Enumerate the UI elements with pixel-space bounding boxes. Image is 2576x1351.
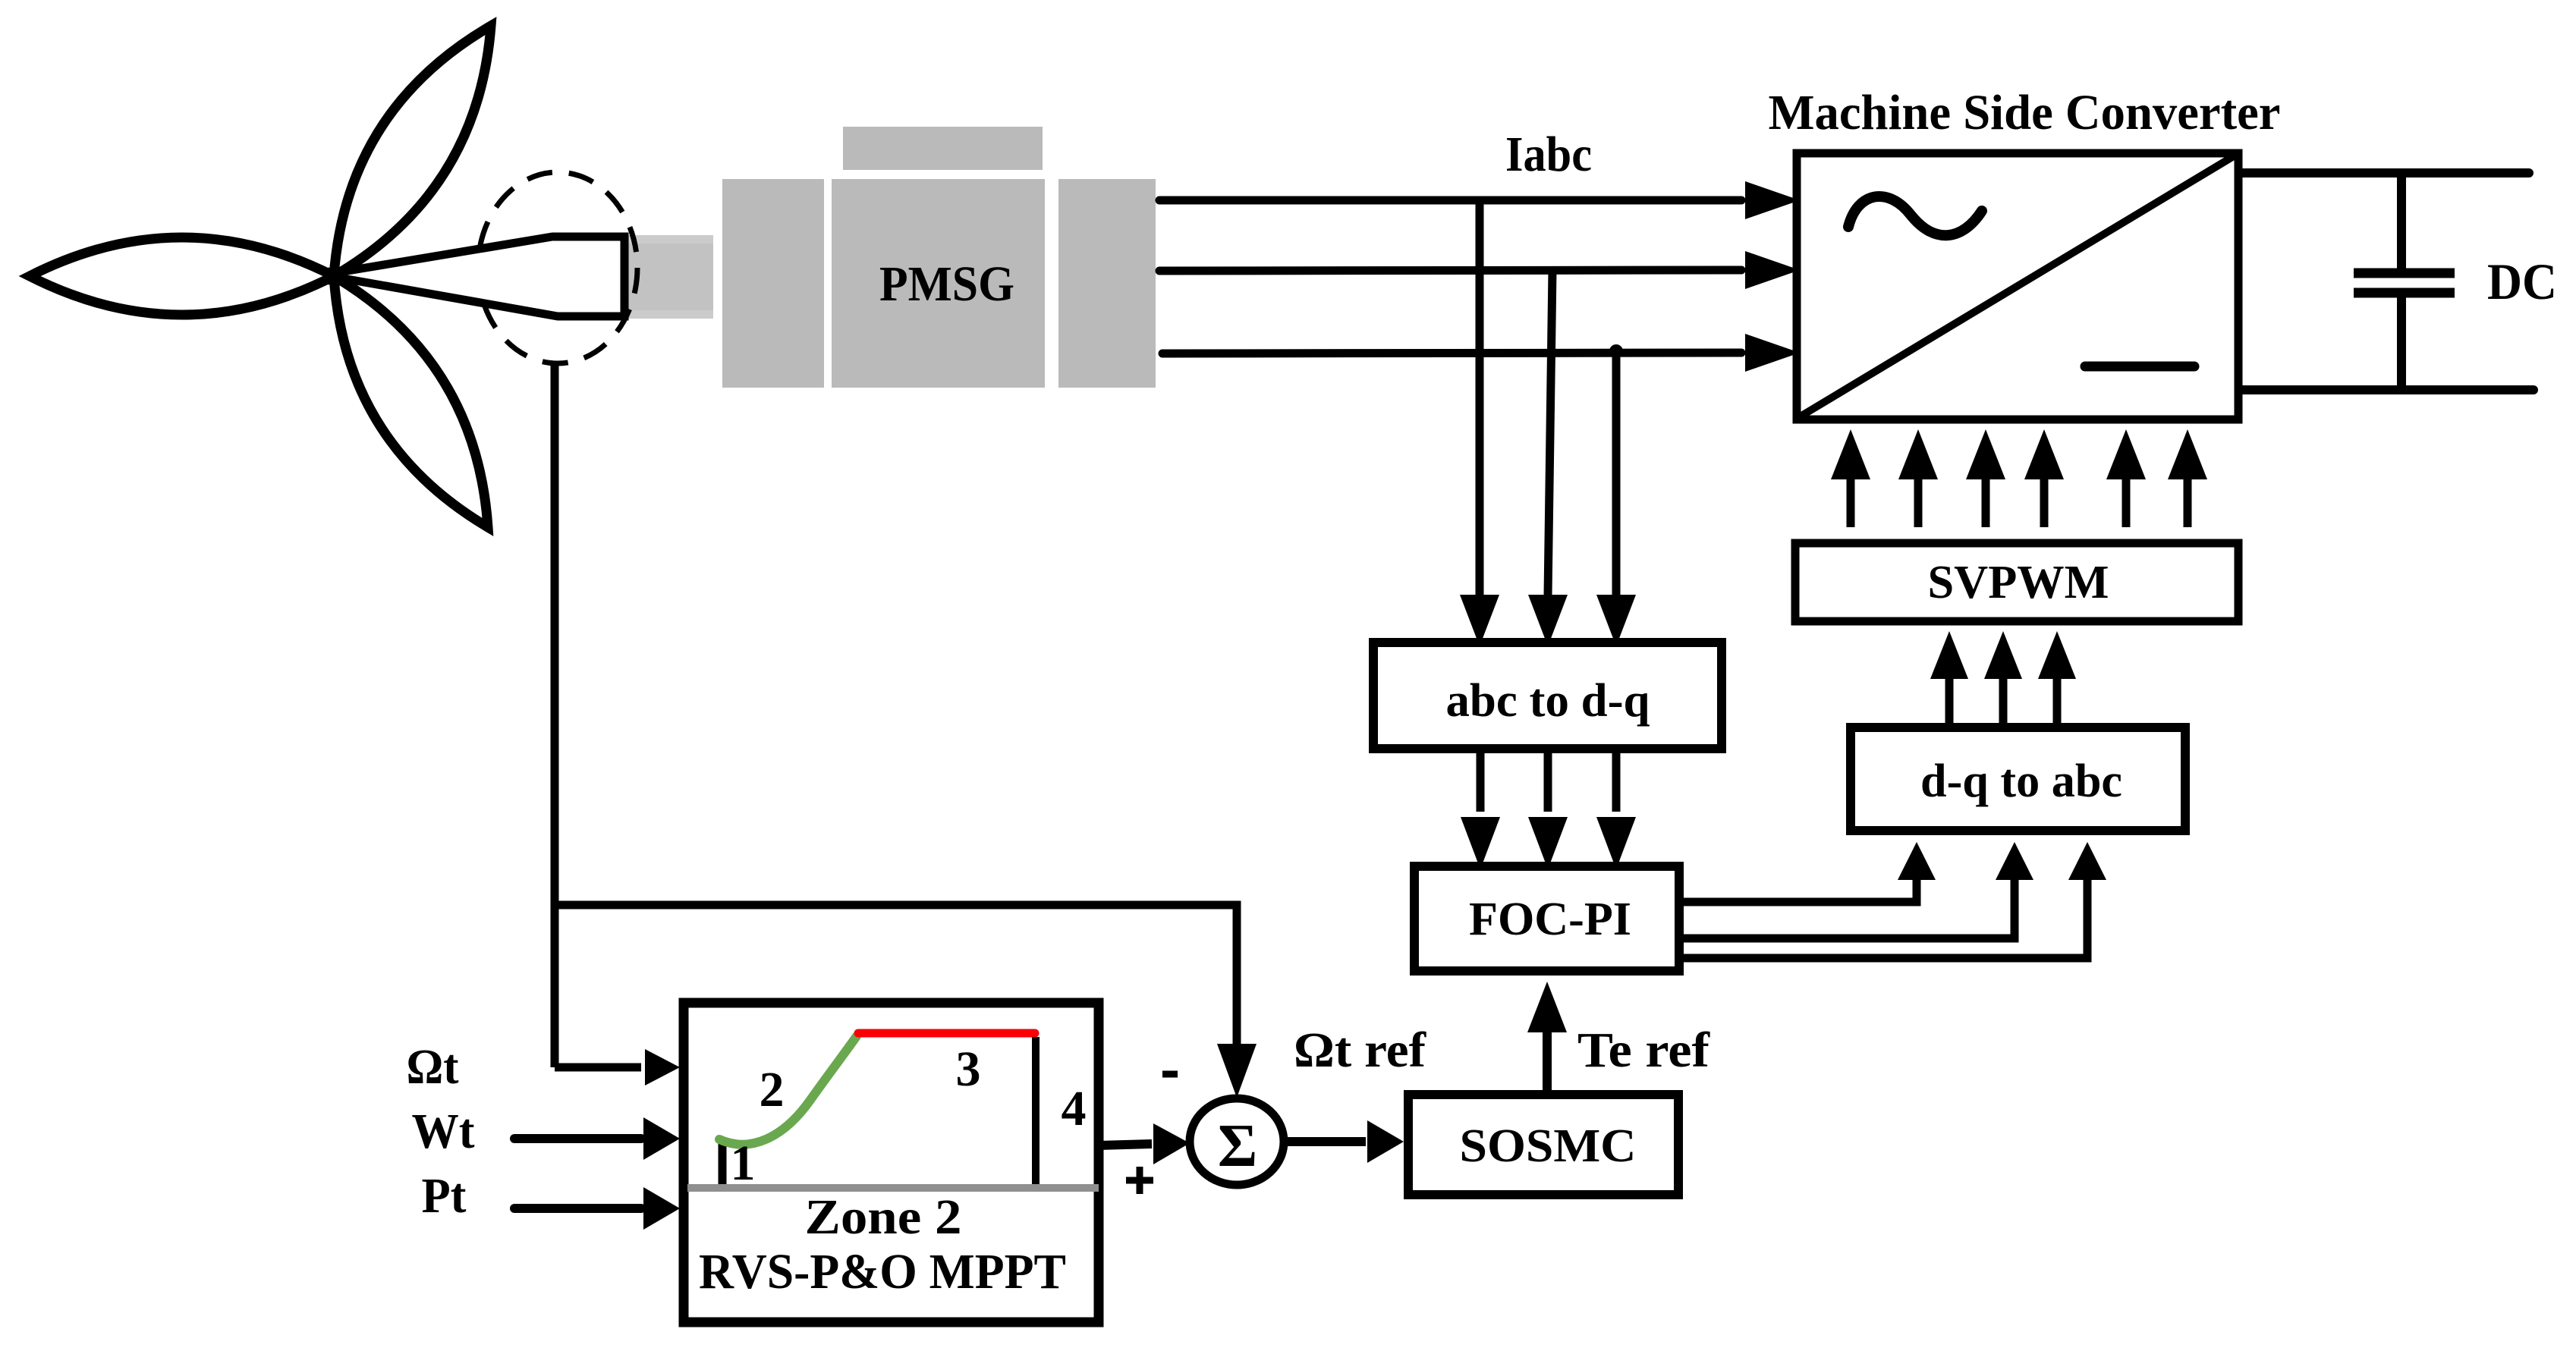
nose cone wedge	[343, 237, 624, 316]
abc-dq to FOC-PI arrow 3	[1596, 753, 1636, 869]
wire phase line a	[1159, 181, 1800, 219]
zone 3/4 divider line	[1032, 1037, 1040, 1184]
svg-text:DC: DC	[2487, 253, 2557, 310]
svg-text:d-q to abc: d-q to abc	[1920, 756, 2122, 807]
feedback wire horizontal to sum	[555, 905, 1237, 1045]
DC bus top wire	[2241, 168, 2529, 178]
tap wire a down to abc-dq	[1460, 200, 1499, 646]
dq-abc to SVPWM arrow 2	[1984, 631, 2022, 723]
gate pulse arrow 5	[2106, 429, 2146, 527]
svg-text:Pt: Pt	[422, 1168, 467, 1224]
machine side converter box	[1797, 153, 2238, 419]
DC bar symbol	[2085, 362, 2194, 372]
svg-text:RVS-P&O MPPT: RVS-P&O MPPT	[699, 1244, 1066, 1299]
Pt input arrow	[514, 1187, 680, 1230]
MPPT zone box	[684, 1003, 1099, 1322]
dq-abc to SVPWM arrow 1	[1930, 631, 1968, 723]
svg-text:Iabc: Iabc	[1505, 127, 1592, 182]
feedback wire from hub down	[551, 363, 559, 1067]
DC link capacitor	[2354, 173, 2455, 390]
svg-text:FOC-PI: FOC-PI	[1469, 894, 1631, 945]
zone 1 tick	[719, 1141, 727, 1184]
gate pulse arrow 6	[2168, 429, 2207, 527]
green MPPT curve	[719, 1036, 857, 1145]
svg-text:PMSG: PMSG	[879, 256, 1014, 312]
arrow down into sum	[1217, 1044, 1257, 1098]
svg-text:SVPWM: SVPWM	[1928, 557, 2109, 608]
gate pulse arrow 1	[1831, 429, 1870, 527]
svg-text:2: 2	[760, 1062, 785, 1117]
gray shaft between hub and generator	[625, 235, 713, 319]
FOC-PI box	[1414, 866, 1679, 971]
dq-abc to SVPWM arrow 3	[2038, 631, 2076, 723]
svg-text:Wt: Wt	[412, 1104, 475, 1159]
dashed hub ellipse	[478, 172, 637, 363]
wire phase line b	[1159, 251, 1800, 289]
plus sign at sum	[1126, 1167, 1153, 1194]
d-q to abc box	[1851, 727, 2185, 831]
red max power line	[858, 1029, 1035, 1038]
svg-text:3: 3	[956, 1042, 981, 1097]
SOSMC box	[1408, 1095, 1678, 1195]
abc to d-q box	[1373, 643, 1722, 749]
wire phase line c	[1162, 334, 1800, 372]
AC sine symbol	[1848, 196, 1982, 235]
abc-dq to FOC-PI arrow 2	[1528, 753, 1568, 869]
Omega t input wire into MPPT	[555, 1049, 680, 1086]
turbine blade top	[334, 26, 491, 276]
gate pulse arrow 4	[2024, 429, 2064, 527]
svg-text:abc to d-q: abc to d-q	[1446, 675, 1650, 727]
DC bus bottom wire	[2241, 385, 2534, 394]
minus sign at sum	[1162, 1071, 1178, 1078]
Wt input arrow	[514, 1117, 680, 1160]
tap wire b down to abc-dq	[1528, 270, 1568, 646]
svg-text:SOSMC: SOSMC	[1460, 1120, 1637, 1172]
Te ref arrow SOSMC to FOC-PI	[1527, 982, 1567, 1090]
svg-text:1: 1	[731, 1136, 756, 1191]
sum output arrow to SOSMC	[1284, 1120, 1404, 1163]
FOC-PI output wire 2 to d-q/abc	[1684, 842, 2033, 938]
svg-text:Te ref: Te ref	[1577, 1023, 1710, 1078]
svg-text:Zone 2: Zone 2	[805, 1189, 962, 1245]
svg-text:Ωt: Ωt	[407, 1039, 459, 1095]
FOC-PI output wire 3 to d-q/abc	[1684, 842, 2106, 958]
turbine blade left	[30, 237, 334, 315]
turbine blade bottom	[334, 276, 488, 527]
abc-dq to FOC-PI arrow 1	[1461, 753, 1500, 869]
tap wire c down to abc-dq	[1596, 344, 1636, 646]
gate pulse arrow 3	[1966, 429, 2005, 527]
svg-text:4: 4	[1062, 1081, 1087, 1136]
FOC-PI output wire 1 to d-q/abc	[1684, 842, 1936, 902]
svg-text:Machine Side Converter: Machine Side Converter	[1769, 85, 2281, 140]
PMSG generator gray blocks	[722, 127, 1156, 388]
gray axis line	[687, 1184, 1099, 1192]
sum junction circle	[1190, 1098, 1284, 1185]
SVPWM box	[1795, 543, 2238, 621]
svg-text:Ωt ref: Ωt ref	[1294, 1023, 1426, 1078]
gate pulse arrow 2	[1898, 429, 1938, 527]
svg-text:Σ: Σ	[1218, 1113, 1257, 1180]
MPPT output arrow to sum	[1099, 1123, 1190, 1164]
